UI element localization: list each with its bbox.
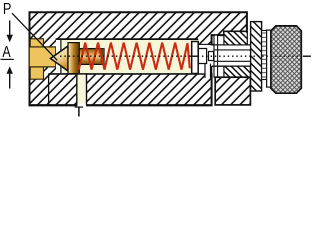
chamber top edge [56, 38, 199, 40]
T drain slot (cream) [77, 75, 86, 104]
arrow down into A port [9, 21, 11, 36]
valve body (hatched, one silhouette incl. top band) [30, 12, 247, 105]
knurled knob barrel [271, 26, 301, 93]
knob collar [267, 30, 271, 87]
T slot left wall [76, 74, 78, 105]
left block inner edge [48, 74, 50, 105]
spring [79, 43, 190, 70]
A underline [1, 58, 14, 60]
bottom right block (hatched) [215, 77, 250, 105]
P leader line [12, 13, 57, 60]
svg-text:P: P [3, 1, 11, 18]
centerline [60, 55, 312, 57]
drain notch left edge [204, 64, 206, 78]
spring retainer plate [192, 42, 199, 74]
bore above screw pilot top edge [198, 43, 213, 45]
threaded bushing top section [224, 32, 247, 45]
body bottom edge interrupted at T port [29, 104, 77, 106]
seat pocket (white) [56, 40, 61, 74]
screw pilot end [198, 49, 206, 64]
arrow up out of A port [7, 66, 13, 73]
screw washer bar at body exit [214, 35, 218, 77]
drain notch right edge [210, 64, 212, 78]
screw tip box [209, 52, 214, 61]
drain notch below pilot (white) [205, 64, 210, 78]
chamber bottom edge [48, 73, 205, 75]
body wall edge below screw hole [211, 66, 213, 75]
stem end cap [101, 49, 104, 65]
poppet cone [51, 46, 69, 71]
spring chamber (cream) [62, 40, 199, 74]
poppet stem [79, 49, 104, 65]
T port opening (erase border under slot) [77, 104, 86, 107]
threaded bushing bottom section [224, 66, 251, 77]
bore (white) right of retainer [198, 45, 213, 73]
port P vertical channel (tan) [30, 39, 43, 79]
locknut [251, 22, 262, 91]
svg-text:T: T [74, 104, 83, 120]
body wall edge above screw hole [211, 35, 213, 45]
port A horizontal channel (tan) [29, 47, 56, 67]
T slot right wall [86, 74, 88, 105]
seat wall edge [60, 39, 62, 73]
svg-text:A: A [2, 43, 11, 61]
striped washer [262, 31, 267, 80]
poppet flange [68, 43, 79, 74]
top band step bottom edge [212, 34, 225, 36]
adjusting screw thread outer lines [212, 44, 267, 46]
